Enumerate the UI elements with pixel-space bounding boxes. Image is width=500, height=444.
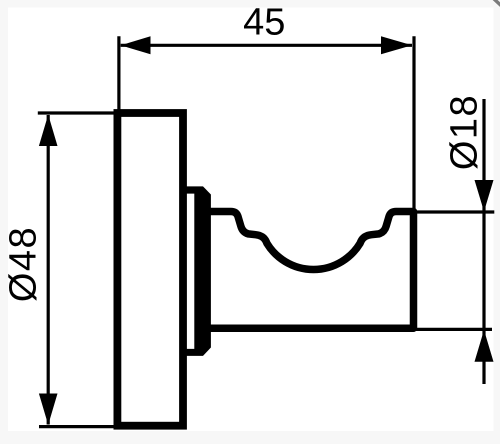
svg-text:45: 45 xyxy=(243,2,285,44)
mounting collar (flange) xyxy=(187,186,211,356)
dim Ø18: lower arrowhead pointing up xyxy=(475,330,494,362)
corner artifact (clipped cursor) xyxy=(494,0,500,6)
wall plate (side view rectangle) xyxy=(117,113,183,426)
dim Ø18: top extension line xyxy=(410,210,494,213)
hook body outline xyxy=(207,212,414,329)
dim Ø48: bottom extension line xyxy=(39,425,127,428)
svg-text:Ø48: Ø48 xyxy=(3,226,45,302)
dim Ø18: upper arrowhead pointing down xyxy=(475,180,494,212)
dim Ø18: bottom extension line xyxy=(410,328,492,331)
svg-text:Ø18: Ø18 xyxy=(444,94,486,170)
dim Ø48: top extension line xyxy=(38,111,122,114)
dim Ø48: bottom arrowhead xyxy=(39,394,58,425)
dim 45: right arrowhead xyxy=(381,36,412,54)
dim 45: left arrowhead xyxy=(121,36,151,54)
dim 45: dimension line xyxy=(121,44,412,47)
dim 45: left extension line xyxy=(117,36,120,118)
dim Ø48: top arrowhead xyxy=(39,115,58,146)
dim Ø18: dimension line xyxy=(482,99,485,384)
dim 45: right extension line xyxy=(412,36,415,215)
dim Ø48: dimension line xyxy=(47,115,50,425)
